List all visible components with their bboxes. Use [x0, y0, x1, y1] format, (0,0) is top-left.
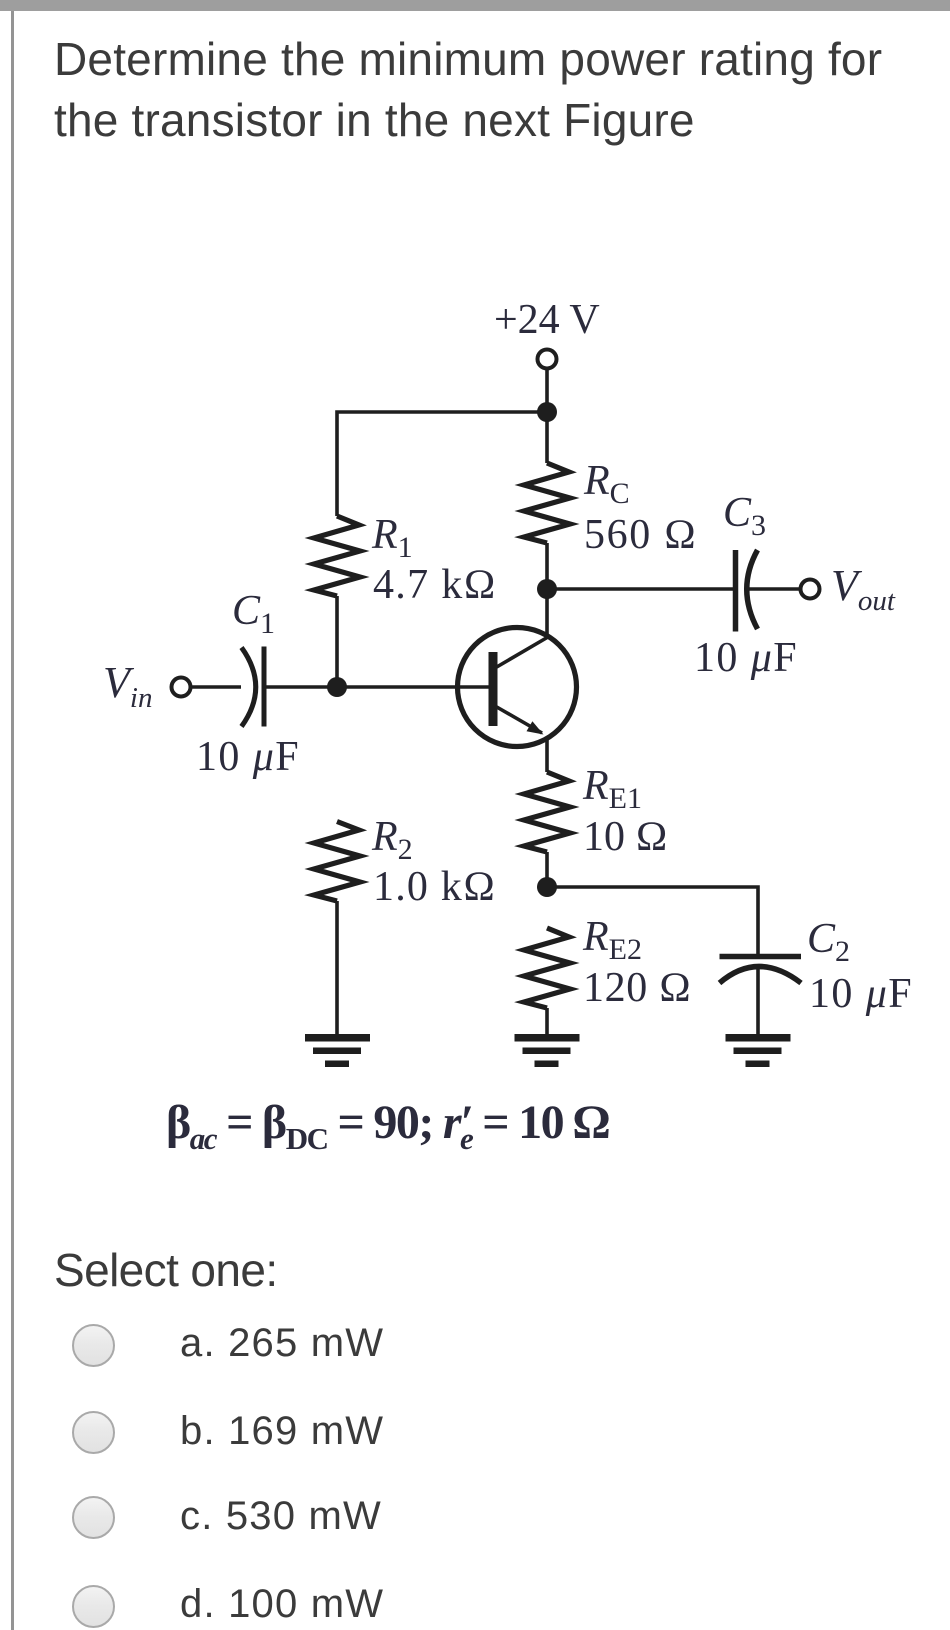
- wire output node to C3: [547, 587, 733, 591]
- wire C1 to base node: [264, 685, 337, 689]
- wire collector node down into transistor: [545, 589, 549, 638]
- option b radio: [72, 1411, 115, 1454]
- wire base node to transistor: [337, 685, 489, 689]
- svg-text:10 Ω: 10 Ω: [583, 814, 668, 860]
- wire supply to top rail: [545, 369, 549, 413]
- option d text: [180, 1584, 384, 1624]
- svg-text:R2: R2: [371, 814, 413, 866]
- wire R1 to base node: [335, 596, 339, 687]
- wire top rail to R1 branch: [337, 412, 547, 516]
- svg-text:10 μF: 10 μF: [196, 734, 300, 780]
- wire R2 to ground: [335, 901, 339, 1034]
- wire Vin to C1: [191, 685, 242, 689]
- svg-text:120 Ω: 120 Ω: [583, 965, 692, 1011]
- capacitor C3: [736, 550, 758, 632]
- option a radio: [72, 1324, 115, 1367]
- wire C2 to ground: [756, 966, 760, 1034]
- node base junction: [327, 677, 347, 697]
- wire C3 to Vout terminal: [747, 587, 801, 591]
- option d radio: [72, 1585, 115, 1628]
- option a text: [180, 1323, 384, 1363]
- option b text: [180, 1411, 384, 1451]
- wire RE1 to emitter node: [545, 852, 549, 887]
- svg-text:4.7 kΩ: 4.7 kΩ: [373, 562, 497, 608]
- question heading: [54, 29, 882, 151]
- ground (R2 branch): [305, 1034, 370, 1067]
- svg-text:C3: C3: [723, 490, 766, 542]
- capacitor C2: [720, 957, 802, 984]
- node V_in terminal: [172, 678, 191, 697]
- ground (RE2 branch): [515, 1034, 580, 1067]
- node collector output junction: [537, 579, 557, 599]
- left gray vertical rule: [11, 11, 14, 1630]
- resistor RC: [524, 463, 570, 543]
- svg-text:560 Ω: 560 Ω: [584, 512, 698, 558]
- wire RC to collector node: [545, 543, 549, 589]
- node top-rail junction: [537, 402, 557, 422]
- option c text: [180, 1496, 382, 1536]
- svg-text:RE1: RE1: [582, 763, 642, 815]
- resistor R1: [314, 516, 360, 596]
- top gray bar: [0, 0, 950, 11]
- resistor RE2: [524, 928, 570, 1008]
- wire emitter node to C2 branch: [547, 887, 758, 954]
- select one prompt: [54, 1247, 278, 1293]
- transistor Q1: [458, 628, 577, 747]
- svg-text:10 μF: 10 μF: [809, 971, 913, 1017]
- svg-text:RC: RC: [583, 458, 630, 510]
- svg-text:+24 V: +24 V: [494, 297, 600, 343]
- capacitor C1: [242, 647, 265, 727]
- resistor RE1: [524, 772, 570, 852]
- svg-text:1.0 kΩ: 1.0 kΩ: [373, 864, 496, 910]
- svg-text:10 μF: 10 μF: [694, 635, 798, 681]
- wire top rail junction down to RC: [545, 412, 549, 463]
- svg-text:RE2: RE2: [582, 914, 642, 966]
- svg-text:Vout: Vout: [831, 561, 896, 617]
- svg-text:Vin: Vin: [103, 658, 152, 714]
- svg-text:C2: C2: [807, 916, 850, 968]
- svg-text:C1: C1: [232, 588, 275, 640]
- svg-text:βac = βDC = 90; r′e = 10 Ω: βac = βDC = 90; r′e = 10 Ω: [166, 1096, 609, 1156]
- option c radio: [72, 1496, 115, 1539]
- node V_out terminal: [801, 580, 820, 599]
- node +24 V supply terminal: [538, 350, 557, 369]
- svg-text:R1: R1: [371, 512, 413, 564]
- node emitter junction: [537, 877, 557, 897]
- wire RE2 to ground: [545, 1008, 549, 1034]
- resistor R2: [314, 822, 360, 902]
- wire emitter to RE1: [545, 737, 549, 772]
- ground (C2 branch): [726, 1034, 791, 1067]
